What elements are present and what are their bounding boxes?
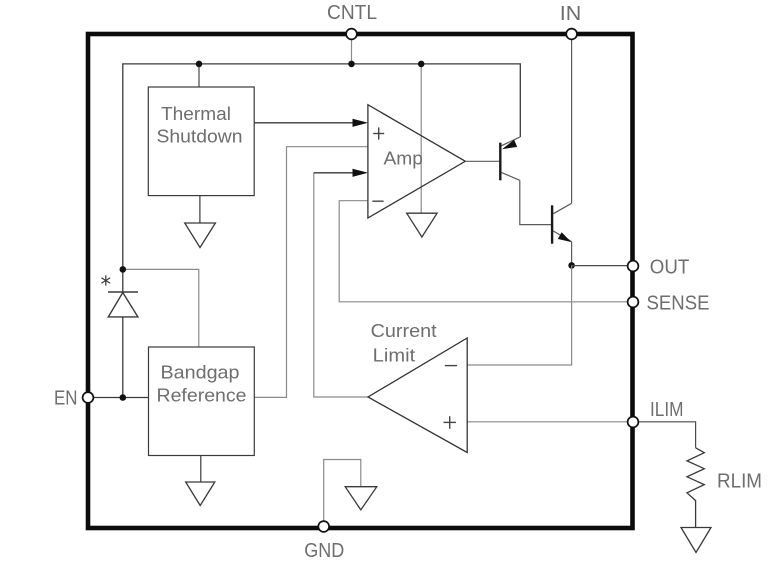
- wire GND pin to internal ground: [324, 460, 361, 522]
- wire OUT node down to current limit inverting input: [467, 265, 571, 365]
- pin EN: [83, 392, 94, 403]
- pin IN: [566, 29, 577, 40]
- svg-text:Shutdown: Shutdown: [157, 127, 243, 147]
- svg-text:Reference: Reference: [157, 386, 247, 406]
- node junction on rail above thermal shutdown: [196, 61, 203, 68]
- node OUT junction: [568, 262, 575, 269]
- node junction on rail below CNTL: [348, 61, 355, 68]
- ground symbol at GND: [345, 487, 377, 510]
- ground below amp: [407, 213, 437, 237]
- svg-text:GND: GND: [304, 539, 344, 562]
- wire SENSE feedback to amp inverting input: [339, 201, 628, 302]
- ground below RLIM: [681, 528, 711, 553]
- resistor RLIM: [687, 448, 704, 528]
- op-amp Amp: [368, 105, 465, 218]
- pin CNTL: [346, 29, 357, 40]
- svg-text:SENSE: SENSE: [647, 291, 710, 314]
- arrowhead into amp input 3: [353, 169, 369, 177]
- diode note asterisk: [101, 275, 110, 285]
- wire EN pin to bandgap: [93, 397, 149, 399]
- wire thermal shutdown top stub: [198, 64, 200, 87]
- svg-text:Amp: Amp: [384, 149, 423, 169]
- svg-text:ILIM: ILIM: [650, 398, 684, 421]
- Bandgap Reference block: [149, 347, 255, 456]
- Thermal Shutdown block: [148, 87, 254, 196]
- wire diode to EN node: [122, 317, 124, 398]
- svg-text:EN: EN: [54, 387, 78, 410]
- svg-text:Thermal: Thermal: [161, 104, 231, 124]
- wire CNTL stub: [351, 40, 353, 64]
- wire amp supply through to ground: [420, 64, 422, 213]
- svg-text:IN: IN: [560, 2, 582, 25]
- wire bandgap reference output to amp: [254, 147, 368, 398]
- node junction on rail at amp supply: [418, 61, 425, 68]
- svg-text:Bandgap: Bandgap: [161, 363, 240, 383]
- svg-text:OUT: OUT: [650, 256, 690, 279]
- wire current limit output to amp: [314, 173, 368, 397]
- pin GND: [318, 521, 329, 532]
- svg-text:RLIM: RLIM: [717, 470, 762, 493]
- ground below thermal shutdown: [185, 196, 216, 248]
- wire ILIM pin to current limit non-inverting input: [467, 421, 628, 423]
- pin SENSE: [628, 297, 639, 308]
- wire OUT node to OUT pin: [572, 265, 629, 267]
- wire diode node to bandgap top: [123, 269, 199, 347]
- node diode top junction: [120, 266, 127, 273]
- node EN junction: [120, 394, 127, 401]
- wire Q1 collector to Q2 base: [520, 180, 551, 224]
- arrowhead into amp input 1: [353, 119, 369, 127]
- wire ILIM external to RLIM: [637, 422, 696, 448]
- svg-text:Limit: Limit: [373, 346, 416, 366]
- pin ILIM: [628, 417, 639, 428]
- transistor Q2: [552, 203, 572, 243]
- transistor Q1: [500, 137, 520, 180]
- IC boundary box: [88, 34, 633, 528]
- svg-text:CNTL: CNTL: [327, 1, 377, 24]
- svg-text:Current: Current: [371, 321, 437, 341]
- pin OUT: [628, 261, 639, 272]
- wire amp output to Q1 base: [465, 160, 499, 162]
- ground below bandgap: [186, 456, 215, 506]
- wire thermal shutdown output to amp: [254, 122, 354, 124]
- wire top rail: [123, 64, 521, 292]
- comparator Current Limit: [368, 321, 467, 453]
- wire IN pin down to Q2 collector: [571, 40, 573, 204]
- diode D1: [108, 292, 138, 317]
- wire Q2 emitter to OUT node: [571, 242, 573, 266]
